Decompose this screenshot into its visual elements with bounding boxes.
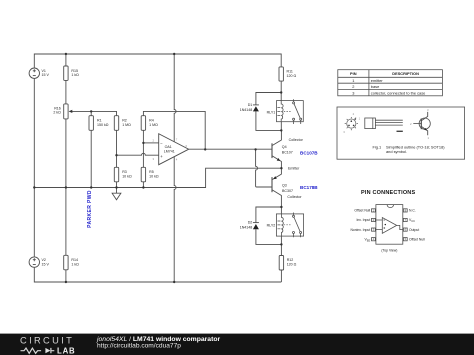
svg-text:LM741: LM741 bbox=[164, 149, 175, 153]
svg-text:1 MΩ: 1 MΩ bbox=[149, 123, 158, 127]
svg-text:Q3: Q3 bbox=[282, 184, 287, 188]
svg-text:Emitter: Emitter bbox=[288, 166, 300, 170]
svg-text:15 V: 15 V bbox=[42, 73, 50, 77]
svg-text:DESCRIPTION: DESCRIPTION bbox=[392, 71, 419, 76]
svg-text:1N4148: 1N4148 bbox=[240, 226, 253, 230]
svg-text:N.C.: N.C. bbox=[409, 209, 416, 213]
svg-text:Noninv. Input: Noninv. Input bbox=[350, 228, 370, 232]
svg-text:base: base bbox=[371, 84, 379, 89]
svg-text:PIN CONNECTIONS: PIN CONNECTIONS bbox=[361, 190, 415, 196]
svg-text:CIRCUIT: CIRCUIT bbox=[20, 335, 74, 345]
svg-text:http://circuitlab.com/cdua77p: http://circuitlab.com/cdua77p bbox=[97, 342, 181, 349]
svg-text:Inv. Input: Inv. Input bbox=[356, 218, 370, 222]
svg-text:Q4: Q4 bbox=[282, 145, 287, 149]
svg-text:3: 3 bbox=[352, 90, 354, 95]
svg-text:BC107: BC107 bbox=[282, 150, 293, 154]
svg-text:OA1: OA1 bbox=[165, 145, 172, 149]
svg-text:2: 2 bbox=[352, 84, 354, 89]
svg-text:1 MΩ: 1 MΩ bbox=[122, 123, 131, 127]
svg-text:2 kΩ: 2 kΩ bbox=[53, 111, 61, 115]
svg-text:(Top View): (Top View) bbox=[381, 249, 397, 253]
svg-text:and symbol.: and symbol. bbox=[386, 149, 407, 154]
svg-text:10 kΩ: 10 kΩ bbox=[149, 174, 159, 178]
svg-text:RLY2: RLY2 bbox=[267, 224, 276, 228]
svg-text:emitter: emitter bbox=[371, 78, 384, 83]
svg-text:LAB: LAB bbox=[57, 346, 75, 355]
svg-text:15 V: 15 V bbox=[42, 263, 50, 267]
svg-text:1: 1 bbox=[352, 78, 354, 83]
svg-text:Offset Null: Offset Null bbox=[409, 237, 425, 241]
svg-text:BC107B: BC107B bbox=[300, 150, 318, 155]
svg-text:BC307: BC307 bbox=[282, 189, 293, 193]
svg-text:Fig.1: Fig.1 bbox=[373, 144, 382, 149]
svg-text:120 Ω: 120 Ω bbox=[287, 263, 297, 267]
svg-text:Collector: Collector bbox=[287, 195, 302, 199]
svg-text:150 kΩ: 150 kΩ bbox=[97, 123, 109, 127]
svg-text:D1: D1 bbox=[248, 103, 253, 107]
svg-text:Collector: Collector bbox=[289, 138, 304, 142]
svg-text:1 kΩ: 1 kΩ bbox=[71, 73, 79, 77]
svg-text:120 Ω: 120 Ω bbox=[287, 74, 297, 78]
svg-text:D2: D2 bbox=[248, 220, 253, 224]
svg-text:BC178B: BC178B bbox=[300, 185, 318, 190]
svg-text:10 kΩ: 10 kΩ bbox=[122, 174, 132, 178]
svg-text:collector, connected to the ca: collector, connected to the case bbox=[371, 90, 426, 95]
svg-text:PIN: PIN bbox=[350, 71, 357, 76]
svg-text:1N4148: 1N4148 bbox=[240, 108, 253, 112]
svg-text:Offset Null: Offset Null bbox=[354, 209, 370, 213]
svg-text:PARKER PWD: PARKER PWD bbox=[87, 190, 93, 228]
svg-text:RLY1: RLY1 bbox=[267, 111, 276, 115]
svg-text:1 kΩ: 1 kΩ bbox=[71, 262, 79, 266]
svg-text:Output: Output bbox=[409, 228, 419, 232]
